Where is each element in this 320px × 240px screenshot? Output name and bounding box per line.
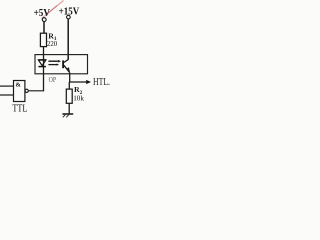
svg-text:10k: 10k [73, 93, 84, 102]
wire node to R2 [68, 82, 70, 89]
svg-text:220: 220 [47, 39, 57, 48]
svg-text:OP: OP [49, 75, 57, 84]
artifact: red scan line [42, 1, 64, 19]
wire R1 through LED to gate output corner [43, 47, 45, 91]
inverter bubble [25, 89, 28, 92]
svg-text:+5V: +5V [34, 8, 51, 19]
output wire with arrow to HTL [69, 81, 87, 83]
terminal +5V [42, 18, 46, 22]
resistor R2 [66, 89, 72, 103]
terminal +15V [67, 15, 71, 19]
TTL gate box [14, 81, 25, 102]
resistor R1 [40, 33, 46, 46]
svg-text:HTL.: HTL. [93, 77, 110, 88]
wire +15V terminal to phototransistor collector [67, 19, 69, 60]
LED of optocoupler [38, 60, 46, 66]
phototransistor [62, 60, 64, 68]
svg-text:&: & [16, 82, 22, 89]
wire emitter to output node [69, 73, 71, 82]
optocoupler box OP [35, 55, 88, 74]
gate input wire 1 [0, 85, 14, 87]
gate input wire 2 [0, 94, 14, 96]
wire gate output to LED cathode corner [28, 90, 44, 92]
wire R2 to ground [68, 103, 70, 113]
wire +5V terminal to R1 [43, 22, 45, 34]
ground [62, 113, 73, 115]
light coupling arrows [48, 60, 58, 62]
svg-text:TTL: TTL [12, 103, 27, 114]
